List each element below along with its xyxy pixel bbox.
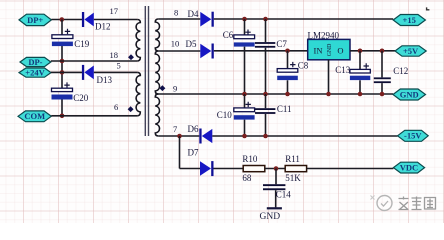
svg-text:DP+: DP+ [27,15,43,25]
svg-text:8: 8 [174,8,178,18]
port COM [18,111,51,122]
port GND [393,89,426,100]
junction GND/C12 [380,92,385,97]
svg-text:GND: GND [260,212,281,222]
diode D5 [186,39,214,59]
junction C7 top [263,17,268,22]
junction GND/C7-C11 [263,92,268,97]
svg-text:GND: GND [327,44,333,57]
watermark text [399,197,436,210]
transformer winding C (pins 8-10) [155,19,159,51]
svg-text:COM: COM [24,111,45,121]
diode D6 [188,124,213,144]
corner mark [427,7,430,9]
svg-text:51K: 51K [285,173,301,183]
capacitor C20 [52,82,89,102]
svg-text:C20: C20 [73,93,89,103]
wire LM2940 GND pin [328,60,330,94]
capacitor C14 [263,169,291,208]
svg-text:GND: GND [400,89,419,99]
junction C12 top [380,49,385,54]
svg-text:C11: C11 [277,104,292,114]
junction COM/C20 [60,114,65,119]
svg-text:C7: C7 [276,39,287,49]
wire D13 to pin 5 [94,71,138,73]
wire +15 rail [214,18,393,20]
svg-text:18: 18 [110,50,119,60]
resistor R10 [242,154,264,183]
port VDC [393,162,424,173]
capacitor C13 [335,51,370,94]
port DP- [20,57,51,67]
capacitor C8 [277,51,309,94]
wire pin 7 to D6 [158,135,199,137]
junction pin7/D7 branch [177,134,182,139]
svg-text:VDC: VDC [400,163,418,173]
capacitor C12 [374,51,409,94]
diode D12 [82,12,111,32]
transformer winding A (pins 17-18) [136,20,140,62]
junction C6 top [242,17,247,22]
transformer winding E (pins 9-7) [155,94,159,136]
svg-text:D7: D7 [188,147,199,157]
svg-text:C14: C14 [276,190,292,200]
wire to D7 [180,168,201,170]
watermark logo [371,196,393,211]
wire D5 to LM2940 IN [214,50,308,52]
capacitor C10 [217,94,255,136]
junction R10/R11/C14 [274,166,279,171]
junction GND/LM2940 [326,92,331,97]
svg-text:D12: D12 [95,22,111,32]
wire R11 to VDC [307,168,394,170]
svg-text:C10: C10 [217,110,233,120]
wire D7 branch vertical [179,136,181,169]
port -15V [398,130,429,141]
resistor R11 [285,154,306,183]
svg-text:10: 10 [171,39,180,49]
svg-text:6: 6 [114,102,118,112]
capacitor C19 [52,29,90,49]
capacitor C7 [255,19,288,94]
transformer winding D (pins 10-9) [155,51,159,94]
diode D7 [188,147,214,176]
polarity dot winding B [128,106,134,112]
junction +24V/C20 [60,70,65,75]
svg-text:C8: C8 [298,60,309,70]
wire R10 to R11 [265,168,285,170]
wire -15V rail [212,135,397,137]
svg-text:-15V: -15V [404,131,422,141]
port DP+ [19,14,51,25]
wire D7 to R10 [214,168,244,170]
svg-text:+5V: +5V [403,46,419,56]
transformer core [145,6,150,136]
port +24V [19,67,51,77]
svg-text:17: 17 [110,6,119,16]
junction DP+/C19 [60,17,65,22]
diode D13 [82,65,113,85]
junction C11 bottom [263,134,268,139]
svg-text:IN: IN [314,45,323,55]
junction C8 top [285,49,290,54]
svg-text:D5: D5 [186,39,197,49]
junction GND/C6-C10 [242,92,247,97]
junction GND/C13 [358,92,363,97]
wire C19 column [61,20,63,116]
svg-text:D13: D13 [97,75,113,85]
transformer winding B (pins 5-6) [136,72,140,115]
svg-text:C13: C13 [335,65,351,75]
port +5V [395,46,426,56]
svg-text:O: O [337,45,343,55]
wire D12 to pin 17 [94,19,138,21]
regulator U1 LM2940 [308,30,351,60]
capacitor C11 [255,94,292,136]
wire DP+ to D12 [51,19,82,21]
svg-text:DP-: DP- [28,57,42,67]
junction GND/C8 [285,92,290,97]
capacitor C6 [223,19,255,94]
svg-text:C12: C12 [393,66,408,76]
junction DP-/C19 [60,59,65,64]
svg-text:+24V: +24V [25,67,45,77]
junction C13 top [358,49,363,54]
wire GND rail pin 9 [155,93,393,95]
svg-text:C19: C19 [74,39,90,49]
svg-text:C6: C6 [223,30,234,40]
diode D4 [188,9,214,27]
svg-text:+15: +15 [403,15,416,25]
svg-text:68: 68 [242,173,252,183]
svg-text:R10: R10 [242,154,258,164]
wire +24V to D13 [51,71,82,73]
svg-text:D4: D4 [188,9,199,19]
wire LM2940 OUT to +5V [350,50,395,52]
svg-text:9: 9 [173,83,177,93]
svg-text:D6: D6 [188,124,199,134]
svg-text:5: 5 [117,60,121,70]
polarity dot winding A [128,54,134,60]
wire pin 8 to D4 [158,18,200,20]
wire DP- to pin 18 [51,60,138,62]
wire COM to pin 6 [51,115,137,117]
svg-text:7: 7 [173,124,177,134]
wire pin 10 to D5 [158,50,200,52]
port +15 [393,15,425,26]
junction C10 bottom [242,134,247,139]
polarity dot winding D [159,85,165,91]
ground symbol [260,208,282,222]
svg-text:R11: R11 [285,154,300,164]
